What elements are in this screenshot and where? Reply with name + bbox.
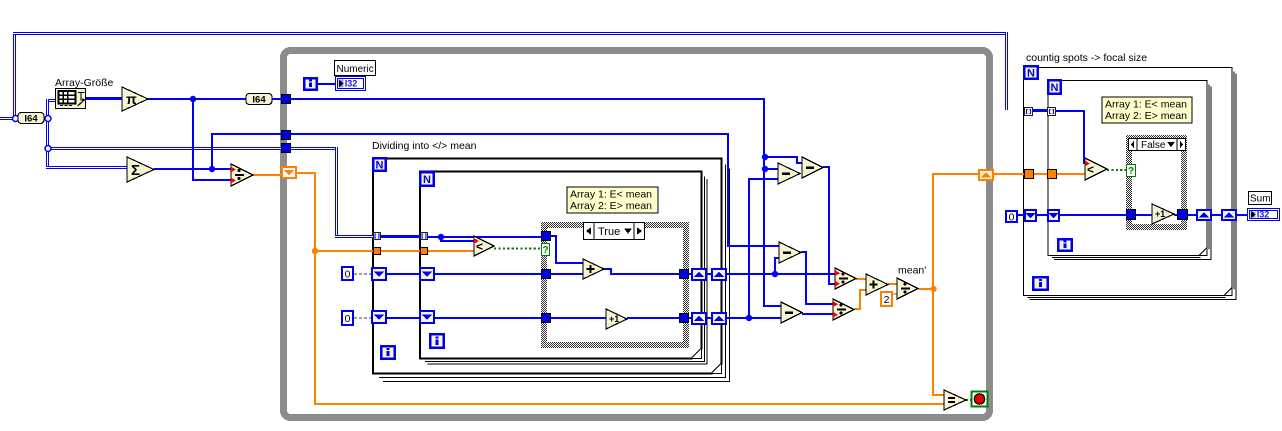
- svg-text:True: True: [598, 226, 620, 238]
- svg-text:Array 2: E> mean: Array 2: E> mean: [570, 200, 652, 212]
- svg-text:0: 0: [345, 313, 351, 325]
- svg-text:Sum: Sum: [1250, 194, 1271, 205]
- svg-text:Numeric: Numeric: [337, 64, 374, 75]
- svg-text:Array 1: E< mean: Array 1: E< mean: [1105, 99, 1187, 111]
- svg-text:?: ?: [542, 245, 548, 256]
- svg-text:N: N: [423, 174, 431, 186]
- svg-text:I32: I32: [1257, 210, 1270, 220]
- svg-text:0: 0: [345, 268, 351, 280]
- svg-text:Dividing into </> mean: Dividing into </> mean: [372, 140, 477, 152]
- svg-text:0: 0: [1009, 211, 1015, 223]
- svg-text:N: N: [1027, 68, 1035, 80]
- svg-text:I32: I32: [345, 79, 358, 89]
- svg-text:?: ?: [1128, 166, 1134, 177]
- svg-text:N: N: [376, 160, 384, 172]
- svg-text:Array 1: E< mean: Array 1: E< mean: [570, 189, 652, 201]
- svg-text:+1: +1: [609, 314, 619, 324]
- svg-text:mean': mean': [898, 265, 926, 277]
- svg-text:I64: I64: [24, 113, 38, 124]
- svg-text:π: π: [126, 91, 137, 107]
- svg-text:Array-Größe: Array-Größe: [55, 77, 114, 89]
- svg-text:N: N: [1051, 82, 1059, 94]
- svg-text:2: 2: [884, 294, 890, 306]
- svg-text:Σ: Σ: [131, 162, 140, 179]
- svg-text:False: False: [1141, 140, 1166, 151]
- svg-text:I64: I64: [252, 94, 266, 105]
- svg-text:+1: +1: [1155, 209, 1165, 219]
- svg-text:Array 2: E> mean: Array 2: E> mean: [1105, 110, 1187, 122]
- svg-text:countig spots -> focal size: countig spots -> focal size: [1026, 52, 1147, 64]
